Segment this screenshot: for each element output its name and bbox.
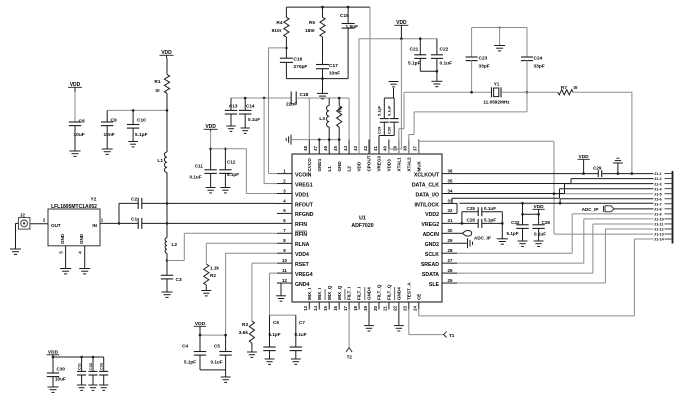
svg-text:FILT_Q: FILT_Q <box>387 284 392 300</box>
svg-text:C19: C19 <box>377 126 382 134</box>
svg-text:INT/LOCK: INT/LOCK <box>415 202 440 208</box>
svg-text:C7: C7 <box>299 320 305 325</box>
svg-text:J1-9: J1-9 <box>654 212 662 216</box>
svg-text:23: 23 <box>403 305 408 310</box>
svg-text:MIX_I: MIX_I <box>317 288 322 300</box>
svg-text:C23: C23 <box>479 56 488 62</box>
svg-text:C21: C21 <box>410 47 419 53</box>
svg-text:MUX: MUX <box>416 160 421 171</box>
svg-text:DATA_CLK: DATA_CLK <box>412 182 439 188</box>
svg-text:C4: C4 <box>182 344 188 349</box>
svg-text:5.1pF: 5.1pF <box>227 172 239 177</box>
svg-text:48: 48 <box>303 146 308 151</box>
svg-text:C20: C20 <box>387 126 392 134</box>
svg-text:RFIN: RFIN <box>295 222 307 228</box>
svg-text:GND4: GND4 <box>396 287 401 300</box>
svg-text:J1-5: J1-5 <box>654 192 662 196</box>
svg-text:0r: 0r <box>155 88 160 94</box>
svg-text:5.1pF: 5.1pF <box>377 105 382 116</box>
svg-text:RSET: RSET <box>295 262 310 268</box>
svg-text:C31: C31 <box>77 363 81 370</box>
svg-text:42: 42 <box>363 146 368 151</box>
svg-text:28: 28 <box>448 248 453 253</box>
svg-text:32: 32 <box>448 208 453 213</box>
svg-text:0.1uF: 0.1uF <box>190 175 202 180</box>
svg-text:0.1uF: 0.1uF <box>440 61 453 67</box>
svg-text:33pF: 33pF <box>534 64 545 70</box>
svg-text:FILT_Q: FILT_Q <box>377 284 382 300</box>
svg-text:T2: T2 <box>347 355 353 360</box>
svg-text:0.1uF: 0.1uF <box>387 105 392 116</box>
svg-text:36: 36 <box>448 168 453 173</box>
svg-text:5.1pF: 5.1pF <box>484 218 496 223</box>
svg-text:MIX_Q: MIX_Q <box>327 285 332 300</box>
svg-text:VCOIN: VCOIN <box>295 172 312 178</box>
svg-text:C1: C1 <box>131 217 137 223</box>
svg-text:VDD2: VDD2 <box>425 212 439 218</box>
svg-text:11: 11 <box>282 268 287 273</box>
svg-text:FILT_I: FILT_I <box>357 287 362 300</box>
svg-text:L3: L3 <box>319 116 325 122</box>
svg-text:GND1: GND1 <box>317 158 322 171</box>
svg-text:CE: CE <box>416 294 421 300</box>
svg-text:J1-11: J1-11 <box>654 223 664 227</box>
svg-text:22: 22 <box>393 305 398 310</box>
svg-text:30: 30 <box>448 228 453 233</box>
svg-text:5.1pF: 5.1pF <box>184 360 196 365</box>
svg-text:J1-12: J1-12 <box>654 228 664 232</box>
svg-text:27: 27 <box>448 258 453 263</box>
svg-text:0.1uF: 0.1uF <box>534 232 546 237</box>
svg-text:C15: C15 <box>340 13 349 19</box>
svg-text:C26: C26 <box>467 218 476 223</box>
svg-text:21: 21 <box>383 305 388 310</box>
svg-text:C8: C8 <box>79 119 85 125</box>
svg-text:C13: C13 <box>229 104 238 109</box>
svg-text:Y1: Y1 <box>494 82 500 87</box>
svg-text:SDATA: SDATA <box>422 272 439 278</box>
svg-text:GND4: GND4 <box>367 287 372 300</box>
svg-text:MIX_Q: MIX_Q <box>337 285 342 300</box>
svg-text:14: 14 <box>313 305 318 310</box>
svg-text:FILT_I: FILT_I <box>347 287 352 300</box>
svg-text:C2: C2 <box>131 197 137 203</box>
svg-text:C33: C33 <box>100 363 104 370</box>
svg-text:MIX_I: MIX_I <box>307 288 312 300</box>
svg-text:VREG1: VREG1 <box>295 182 313 188</box>
svg-text:38: 38 <box>403 146 408 151</box>
svg-text:13: 13 <box>303 305 308 310</box>
svg-text:33pF: 33pF <box>479 64 490 70</box>
svg-text:XCLKOUT: XCLKOUT <box>414 172 440 178</box>
svg-text:C18: C18 <box>300 92 309 98</box>
svg-text:L1: L1 <box>327 166 332 172</box>
svg-text:R2: R2 <box>210 273 216 278</box>
svg-text:C25: C25 <box>467 206 476 211</box>
svg-text:SREAD: SREAD <box>421 262 439 268</box>
svg-text:47: 47 <box>313 146 318 151</box>
svg-text:C12: C12 <box>227 160 236 165</box>
svg-text:L1: L1 <box>157 158 163 164</box>
svg-text:C28: C28 <box>542 220 551 225</box>
svg-text:R7: R7 <box>561 85 567 90</box>
svg-text:VREG4: VREG4 <box>295 272 313 278</box>
svg-text:VDD4: VDD4 <box>295 252 309 258</box>
svg-text:CPOUT: CPOUT <box>367 155 372 171</box>
svg-text:CVCO: CVCO <box>307 158 312 172</box>
svg-text:ADF7020: ADF7020 <box>351 223 373 229</box>
svg-text:3.6k: 3.6k <box>239 330 249 336</box>
svg-text:C32: C32 <box>89 363 93 370</box>
svg-text:R4: R4 <box>276 20 282 26</box>
svg-text:VDD: VDD <box>357 161 362 171</box>
svg-text:180r: 180r <box>305 28 315 34</box>
svg-text:ADCIN: ADCIN <box>423 232 440 238</box>
svg-text:19: 19 <box>363 305 368 310</box>
svg-text:OUT: OUT <box>51 223 61 228</box>
svg-text:J1-8: J1-8 <box>654 207 662 211</box>
svg-text:16: 16 <box>333 305 338 310</box>
svg-text:XTAL2: XTAL2 <box>406 157 411 172</box>
svg-text:12: 12 <box>282 278 287 283</box>
svg-text:34: 34 <box>448 188 453 193</box>
svg-text:5.1pF: 5.1pF <box>135 132 148 138</box>
svg-text:10uF: 10uF <box>55 377 66 382</box>
svg-text:46: 46 <box>323 146 328 151</box>
svg-text:10: 10 <box>282 258 287 263</box>
svg-text:24: 24 <box>413 305 418 310</box>
svg-text:J1-4: J1-4 <box>654 187 662 191</box>
svg-text:GND2: GND2 <box>425 242 440 248</box>
svg-text:41: 41 <box>373 146 378 151</box>
svg-text:R3: R3 <box>242 322 248 328</box>
svg-text:J1-2: J1-2 <box>654 177 662 181</box>
svg-text:IN: IN <box>92 223 97 228</box>
svg-text:ADC_IP: ADC_IP <box>582 207 599 212</box>
svg-text:VDD3: VDD3 <box>387 159 392 172</box>
svg-text:J2: J2 <box>20 213 25 218</box>
svg-text:5.1pF: 5.1pF <box>269 332 281 337</box>
svg-text:0.1uF: 0.1uF <box>295 332 307 337</box>
svg-text:C29: C29 <box>593 166 602 171</box>
svg-text:C3: C3 <box>176 277 182 283</box>
svg-text:XTAL1: XTAL1 <box>396 157 401 172</box>
svg-text:TEST_A: TEST_A <box>406 282 411 300</box>
svg-text:11.0592MHz: 11.0592MHz <box>483 100 510 105</box>
svg-text:C17: C17 <box>329 63 338 69</box>
svg-text:R1: R1 <box>154 79 160 85</box>
svg-text:J1-13: J1-13 <box>654 233 664 237</box>
svg-text:31: 31 <box>448 218 453 223</box>
svg-text:GND: GND <box>79 233 84 244</box>
svg-text:43: 43 <box>353 146 358 151</box>
svg-text:C24: C24 <box>534 56 543 62</box>
svg-text:20: 20 <box>373 305 378 310</box>
svg-text:44: 44 <box>343 146 348 151</box>
svg-text:Y2: Y2 <box>91 197 97 203</box>
svg-text:J1-7: J1-7 <box>654 202 662 206</box>
svg-text:5.1pF: 5.1pF <box>408 61 421 67</box>
svg-text:C32: C32 <box>511 220 520 225</box>
svg-text:SCLK: SCLK <box>425 252 439 258</box>
svg-text:0r: 0r <box>574 85 579 90</box>
svg-text:35: 35 <box>448 178 453 183</box>
svg-text:RFGND: RFGND <box>295 212 314 218</box>
svg-text:LFL1895MTC1A052: LFL1895MTC1A052 <box>51 204 97 210</box>
svg-text:VREG3: VREG3 <box>377 155 382 171</box>
svg-text:29: 29 <box>448 238 453 243</box>
svg-text:5.1pF: 5.1pF <box>507 231 519 236</box>
svg-text:C5: C5 <box>214 344 220 349</box>
svg-text:22nF: 22nF <box>286 102 297 108</box>
svg-text:C30: C30 <box>57 367 66 372</box>
svg-text:SLE: SLE <box>429 282 440 288</box>
svg-text:17: 17 <box>343 305 348 310</box>
svg-text:RFIN: RFIN <box>295 232 307 238</box>
svg-text:910r: 910r <box>272 28 282 34</box>
svg-text:RFOUT: RFOUT <box>295 202 314 208</box>
svg-text:C10: C10 <box>137 118 146 124</box>
svg-text:DATA_I/O: DATA_I/O <box>416 192 439 198</box>
svg-text:40: 40 <box>383 146 388 151</box>
svg-text:J1-6: J1-6 <box>654 197 662 201</box>
svg-text:VREG2: VREG2 <box>421 222 439 228</box>
svg-text:GND: GND <box>60 233 65 244</box>
svg-text:C14: C14 <box>246 104 255 109</box>
svg-text:J1-3: J1-3 <box>654 182 662 186</box>
svg-text:C22: C22 <box>440 47 449 53</box>
svg-text:0.1uF: 0.1uF <box>248 117 260 122</box>
svg-text:R6: R6 <box>338 106 343 112</box>
svg-text:ADC_IP: ADC_IP <box>474 236 491 241</box>
svg-text:45: 45 <box>333 146 338 151</box>
svg-text:L2: L2 <box>172 242 178 248</box>
svg-text:10nF: 10nF <box>104 132 115 138</box>
svg-text:L2: L2 <box>347 166 352 172</box>
svg-text:R5: R5 <box>309 20 315 26</box>
svg-text:0.1uF: 0.1uF <box>211 360 223 365</box>
svg-text:T1: T1 <box>449 333 455 338</box>
svg-text:1.5nF: 1.5nF <box>346 24 359 30</box>
svg-text:C16: C16 <box>294 57 303 63</box>
svg-text:18: 18 <box>353 305 358 310</box>
svg-text:10uF: 10uF <box>74 132 85 138</box>
svg-text:0.1uF: 0.1uF <box>484 206 496 211</box>
svg-text:15: 15 <box>323 305 328 310</box>
svg-text:26: 26 <box>448 268 453 273</box>
svg-text:39: 39 <box>393 146 398 151</box>
svg-text:J1-10: J1-10 <box>654 218 664 222</box>
svg-text:U1: U1 <box>359 216 366 222</box>
svg-text:J1-14: J1-14 <box>654 238 665 242</box>
svg-text:33nF: 33nF <box>329 71 340 77</box>
svg-text:C9: C9 <box>111 118 117 124</box>
svg-text:C11: C11 <box>195 164 204 169</box>
svg-text:GND: GND <box>337 161 342 172</box>
svg-text:25: 25 <box>448 278 453 283</box>
svg-text:270pF: 270pF <box>294 64 308 70</box>
svg-text:J1-1: J1-1 <box>654 172 662 176</box>
svg-text:C6: C6 <box>273 320 279 325</box>
svg-text:GND4: GND4 <box>295 282 310 288</box>
svg-text:37: 37 <box>413 146 418 151</box>
svg-text:VDD1: VDD1 <box>295 192 309 198</box>
svg-text:1.1k: 1.1k <box>210 266 219 271</box>
svg-text:RLNA: RLNA <box>295 242 310 248</box>
